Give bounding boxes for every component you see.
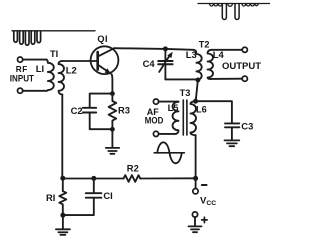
wire: node to C3 [196,101,232,123]
wire: RF top to L1 [23,59,46,61]
svg-text:L3: L3 [186,49,197,60]
junction: bias node left [60,176,65,181]
junction: emitter node [110,91,115,96]
wire: emitter node to C2 [90,94,113,107]
junction: collector / C4 node [163,46,168,51]
Vcc terminal [195,178,197,188]
svg-text:VCC: VCC [200,195,216,207]
junction: R1 bottom node [60,213,65,218]
output terminal top [242,47,247,52]
wire: L4 bottom to output terminal [210,78,242,80]
svg-text:C2: C2 [71,105,83,116]
svg-text:MOD: MOD [145,115,164,125]
transformer T2 secondary L4 [208,50,214,79]
svg-text:T2: T2 [199,39,210,49]
wire: L2 bottom down to bias node [61,95,63,179]
ground below R3 [106,129,119,154]
svg-text:LI: LI [36,63,44,74]
wire: AF top to L5 [159,101,179,103]
svg-text:R2: R2 [127,163,139,174]
junction: R3 bottom node [110,127,115,132]
AF MOD terminal top [153,99,158,104]
modulation sine waveform [154,142,184,163]
svg-text:T3: T3 [180,88,191,98]
resistor R1 [59,178,66,215]
junction: C1 node [91,176,96,181]
positive terminal [192,212,197,217]
capacitor C2 [83,108,112,129]
svg-text:RI: RI [46,192,55,203]
torn-edge break top-right [198,4,270,20]
wire: C4 bottom to L3 bottom node [165,78,198,81]
wire: tank bottom down to T3 [196,80,198,101]
capacitor C3 [225,123,239,139]
wire: Q1 collector to tank [114,48,193,50]
junction: L6 top node [193,99,198,104]
transformer T2 primary L3 [194,50,202,81]
junction: Vcc node [193,176,198,181]
junction: L3 / C4 / T3 node [196,78,201,83]
AF MOD terminal bottom [153,131,158,136]
svg-text:L6: L6 [196,105,207,115]
svg-text:L5: L5 [168,103,179,113]
transistor Q1 [91,46,119,74]
output terminal bottom [242,76,247,81]
svg-text:INPUT: INPUT [10,74,35,84]
wire: L2 top to Q1 base [62,60,97,62]
variable capacitor C4 [158,49,173,79]
svg-text:C3: C3 [241,121,253,132]
transformer T3 core [183,100,187,135]
svg-text:R3: R3 [118,105,130,116]
RF input terminal top [18,57,23,62]
wire: bias row right segment [140,177,195,179]
wire: RF bottom to L1 [23,90,46,92]
label + [202,217,207,222]
ground below R1 [56,215,70,235]
resistor R2 [124,175,141,182]
svg-text:OUTPUT: OUTPUT [222,60,261,71]
wire: bias row left segment [63,178,124,180]
svg-text:QI: QI [97,34,108,44]
svg-text:TI: TI [50,49,58,59]
wire: Q1 emitter down [111,75,114,94]
transformer T1 primary L1 [46,60,54,91]
svg-text:C4: C4 [143,58,156,69]
transformer T1 secondary L2 [59,61,64,95]
wire: positive terminal to ground [194,217,196,225]
wire: L4 top to output terminal [212,49,242,51]
ground below C3 [225,140,240,146]
minus sign [202,184,207,186]
svg-text:CI: CI [103,190,112,201]
transformer T3 secondary L6 [190,101,196,135]
resistor R3 [109,94,117,130]
torn-edge break top-left [12,31,95,45]
RF input terminal bottom [18,88,23,93]
ground below positive terminal [189,226,202,232]
capacitor C1 [65,178,101,215]
wire: AF bottom to L5 [159,133,177,135]
svg-text:L2: L2 [66,65,77,76]
transformer T3 primary L5 [173,102,179,134]
wire: L6 bottom to Vcc node [195,135,197,178]
